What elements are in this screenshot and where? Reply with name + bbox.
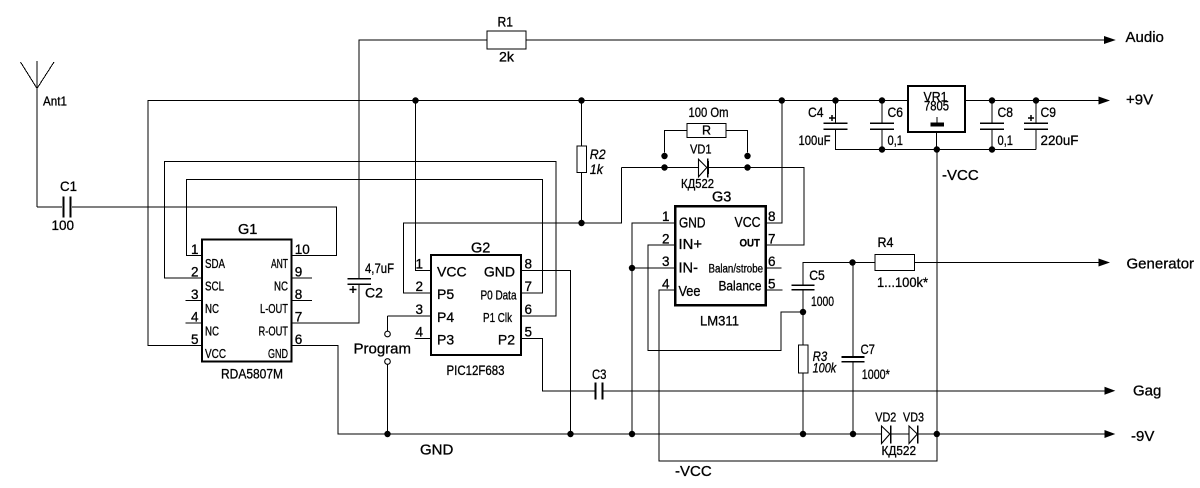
- svg-text:7: 7: [295, 310, 303, 325]
- svg-text:-VCC: -VCC: [675, 463, 712, 480]
- svg-text:VCC: VCC: [735, 215, 761, 231]
- svg-text:Generator: Generator: [1127, 256, 1195, 273]
- svg-text:C1: C1: [60, 178, 77, 194]
- svg-text:NC: NC: [205, 324, 219, 339]
- svg-text:VCC: VCC: [205, 346, 226, 361]
- svg-text:VD2: VD2: [875, 410, 896, 425]
- svg-text:C6: C6: [888, 104, 904, 120]
- svg-text:Ant1: Ant1: [43, 94, 67, 109]
- svg-text:Program: Program: [354, 341, 412, 358]
- svg-text:1: 1: [191, 242, 199, 257]
- svg-text:P0 Data: P0 Data: [481, 289, 517, 303]
- svg-text:5: 5: [191, 332, 199, 347]
- svg-text:КД522: КД522: [882, 443, 917, 458]
- svg-text:1...100k*: 1...100k*: [877, 274, 929, 290]
- svg-text:SCL: SCL: [205, 279, 224, 294]
- svg-text:VD1: VD1: [690, 142, 712, 157]
- svg-text:C4: C4: [808, 104, 824, 120]
- svg-text:IN+: IN+: [679, 237, 703, 253]
- svg-text:8: 8: [525, 257, 533, 272]
- svg-text:9: 9: [295, 265, 303, 280]
- svg-text:2: 2: [415, 279, 423, 294]
- svg-text:C9: C9: [1041, 104, 1057, 120]
- svg-text:IN-: IN-: [679, 261, 699, 277]
- svg-text:6: 6: [525, 302, 533, 317]
- svg-text:4,7uF: 4,7uF: [365, 260, 394, 276]
- svg-text:NC: NC: [274, 279, 288, 294]
- svg-text:7: 7: [525, 279, 533, 294]
- svg-text:-9V: -9V: [1131, 428, 1154, 445]
- svg-text:G2: G2: [471, 241, 490, 257]
- svg-text:GND: GND: [420, 442, 454, 459]
- svg-text:R2: R2: [590, 146, 606, 162]
- svg-text:100 Om: 100 Om: [689, 104, 729, 120]
- svg-text:5: 5: [525, 325, 533, 340]
- svg-text:1: 1: [662, 209, 670, 224]
- svg-text:0,1: 0,1: [888, 132, 904, 148]
- svg-text:4: 4: [415, 325, 423, 340]
- svg-text:GND: GND: [268, 346, 288, 361]
- svg-text:P5: P5: [437, 286, 454, 302]
- svg-text:8: 8: [295, 287, 303, 302]
- svg-text:-VCC: -VCC: [942, 167, 979, 184]
- svg-text:R1: R1: [498, 14, 514, 30]
- svg-text:1: 1: [415, 257, 423, 272]
- svg-text:0,1: 0,1: [998, 132, 1014, 148]
- svg-text:Balance: Balance: [719, 278, 762, 294]
- svg-text:VD3: VD3: [903, 410, 924, 425]
- svg-text:C8: C8: [998, 104, 1014, 120]
- svg-text:8: 8: [768, 209, 776, 224]
- svg-text:6: 6: [768, 254, 776, 269]
- svg-text:3: 3: [415, 302, 423, 317]
- svg-text:100uF: 100uF: [799, 132, 831, 148]
- svg-text:G3: G3: [712, 190, 731, 206]
- svg-text:2: 2: [191, 265, 199, 280]
- svg-text:+9V: +9V: [1126, 92, 1153, 109]
- svg-text:R-OUT: R-OUT: [259, 324, 289, 339]
- svg-text:R: R: [702, 124, 711, 138]
- svg-text:G1: G1: [238, 222, 257, 238]
- svg-text:3: 3: [662, 254, 670, 269]
- svg-text:2: 2: [662, 232, 670, 247]
- svg-text:L-OUT: L-OUT: [260, 301, 288, 316]
- svg-text:OUT: OUT: [740, 238, 761, 250]
- svg-text:VCC: VCC: [437, 264, 467, 280]
- svg-text:RDA5807M: RDA5807M: [221, 367, 283, 382]
- svg-text:P3: P3: [437, 332, 454, 348]
- svg-text:1000: 1000: [811, 293, 834, 309]
- svg-text:C7: C7: [861, 341, 876, 357]
- svg-text:NC: NC: [205, 301, 219, 316]
- svg-text:2k: 2k: [499, 49, 515, 65]
- svg-text:C5: C5: [809, 267, 825, 283]
- svg-text:100k: 100k: [813, 360, 837, 376]
- svg-text:10: 10: [295, 242, 310, 257]
- svg-text:Balan/strobe: Balan/strobe: [709, 264, 764, 276]
- svg-text:100: 100: [52, 217, 75, 233]
- svg-text:P4: P4: [437, 309, 454, 325]
- svg-text:SDA: SDA: [205, 256, 225, 271]
- svg-text:C3: C3: [592, 366, 607, 382]
- svg-text:Audio: Audio: [1126, 29, 1164, 46]
- svg-text:4: 4: [191, 310, 199, 325]
- svg-text:Gag: Gag: [1133, 383, 1161, 400]
- svg-text:5: 5: [768, 277, 776, 292]
- svg-text:1k: 1k: [590, 161, 604, 177]
- svg-text:КД522: КД522: [681, 176, 714, 191]
- svg-text:P1 Clk: P1 Clk: [483, 311, 513, 325]
- svg-text:7: 7: [768, 232, 776, 247]
- svg-text:1000*: 1000*: [862, 366, 890, 382]
- svg-text:7805: 7805: [924, 99, 949, 114]
- svg-text:4: 4: [662, 277, 670, 292]
- svg-text:6: 6: [295, 332, 303, 347]
- svg-text:R4: R4: [878, 234, 894, 250]
- svg-text:GND: GND: [484, 264, 515, 280]
- svg-text:GND: GND: [679, 216, 706, 232]
- svg-text:P2: P2: [498, 332, 515, 348]
- svg-text:C2: C2: [365, 285, 383, 301]
- svg-text:PIC12F683: PIC12F683: [447, 363, 505, 378]
- svg-text:3: 3: [191, 287, 199, 302]
- svg-text:ANT: ANT: [271, 256, 288, 271]
- svg-text:Vee: Vee: [679, 284, 701, 300]
- svg-text:LM311: LM311: [700, 314, 739, 329]
- svg-text:220uF: 220uF: [1041, 132, 1079, 148]
